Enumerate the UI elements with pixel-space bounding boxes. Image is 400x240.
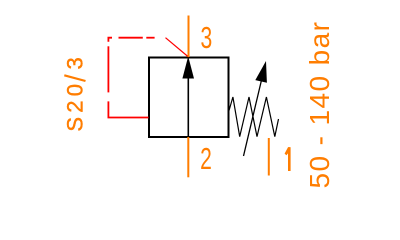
flow arrowhead (points up to port 3) xyxy=(182,56,194,78)
pilot leader diagonal xyxy=(166,38,189,57)
svg-text:3: 3 xyxy=(201,20,213,55)
pilot dash top horizontal long xyxy=(119,37,143,39)
spring (zigzag) on right side of valve xyxy=(229,97,279,137)
pilot dash left vertical + bottom into valve xyxy=(108,101,148,117)
svg-text:50 - 140 bar: 50 - 140 bar xyxy=(304,21,335,189)
svg-text:2: 2 xyxy=(200,141,212,176)
valve body square xyxy=(149,58,229,138)
pilot corner dash top-left xyxy=(108,38,112,42)
port 3 line (orange) top xyxy=(188,16,190,58)
pilot dash left vertical long xyxy=(107,46,109,92)
port 2 line (orange) bottom xyxy=(187,137,189,177)
pilot dash top horizontal xyxy=(146,37,154,39)
flow path vertical line inside valve xyxy=(187,76,189,137)
adjustment arrow shaft across spring xyxy=(244,78,263,156)
svg-text:S20/3: S20/3 xyxy=(62,53,87,132)
adjustment arrowhead xyxy=(255,61,267,83)
port 1 line (orange) below spring xyxy=(268,138,270,176)
pilot line (red dashed) from port 3 node around left into valve xyxy=(108,38,188,118)
port label 1 (drawn glyph: stem + flag) xyxy=(285,147,291,171)
slash of S20/3 drawn to match CAD glyph xyxy=(64,75,85,81)
